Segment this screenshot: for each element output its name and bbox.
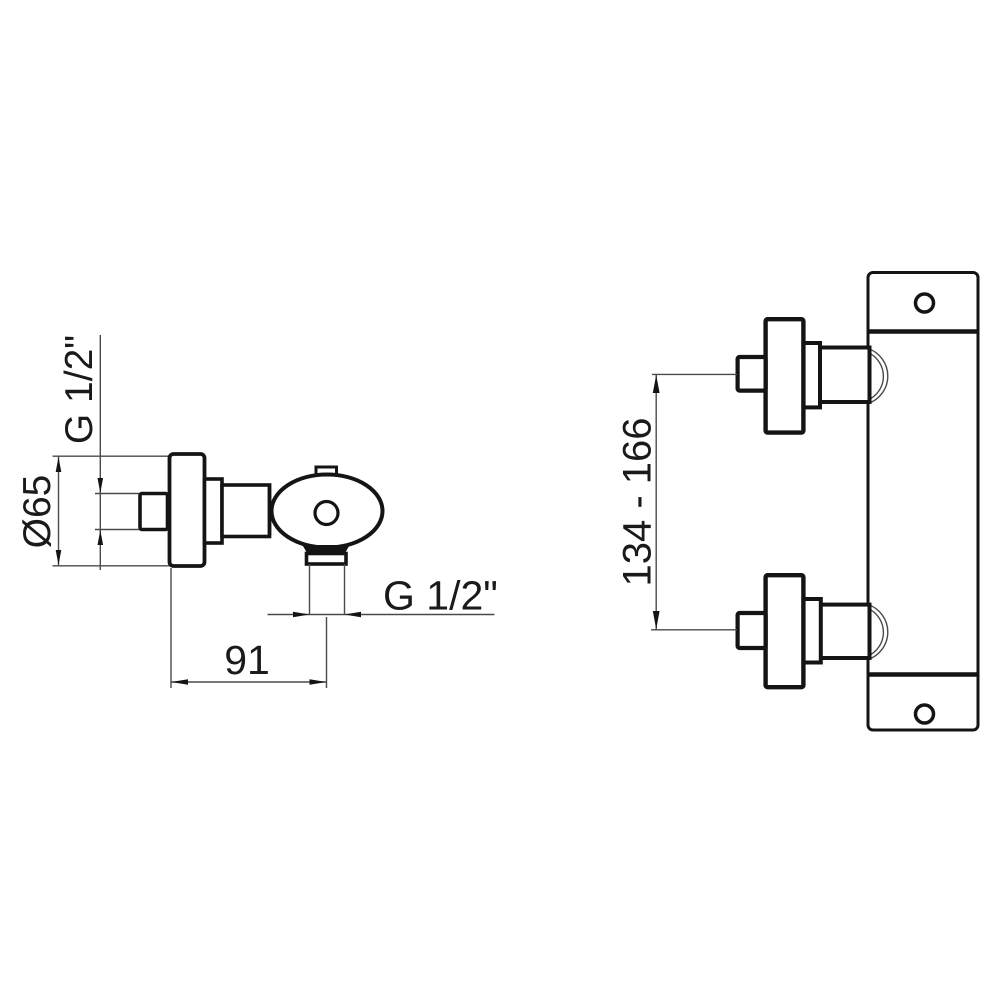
svg-text:134 - 166: 134 - 166	[616, 417, 660, 586]
svg-text:Ø65: Ø65	[16, 475, 59, 549]
svg-text:G 1/2": G 1/2"	[383, 573, 498, 619]
svg-text:G 1/2": G 1/2"	[58, 335, 101, 444]
svg-text:91: 91	[224, 637, 270, 683]
